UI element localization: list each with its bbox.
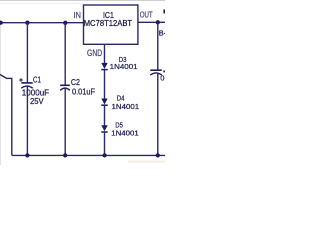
diode D3 xyxy=(101,63,107,70)
node junction C2 xyxy=(63,21,67,25)
node rail C1 xyxy=(25,153,29,157)
svg-text:C1: C1 xyxy=(33,75,41,84)
svg-text:MC78T12ABT: MC78T12ABT xyxy=(84,19,132,28)
svg-text:OUT: OUT xyxy=(140,11,153,20)
svg-text:IN: IN xyxy=(74,11,82,20)
wire D4 to D5 xyxy=(104,105,106,125)
wire input rail xyxy=(0,22,84,24)
node rail B+ xyxy=(156,153,160,157)
svg-text:GND: GND xyxy=(87,48,102,58)
wire below C4 to rail xyxy=(157,74,159,156)
svg-text:0.01uF: 0.01uF xyxy=(72,87,95,96)
top gray border xyxy=(0,0,165,1)
wire C2 bottom xyxy=(64,89,66,156)
capacitor C1 xyxy=(19,78,33,88)
node rail D5 xyxy=(102,153,106,157)
wire OUT xyxy=(138,21,165,23)
wire D3 to D4 xyxy=(104,70,106,99)
diode D4 xyxy=(101,99,107,106)
wire bottom rail xyxy=(12,154,165,156)
wire B+ vertical to capacitor xyxy=(157,22,159,70)
svg-text:1N4001: 1N4001 xyxy=(110,62,138,71)
wire C2 top xyxy=(64,23,66,85)
node input terminal xyxy=(0,21,3,25)
capacitor C2 xyxy=(60,85,70,90)
wire left elbow xyxy=(6,77,12,79)
left gray border xyxy=(0,20,2,165)
svg-text:C2: C2 xyxy=(71,78,80,87)
svg-text:0.0: 0.0 xyxy=(160,74,165,83)
wire diagonal lead-in xyxy=(0,75,7,79)
svg-text:1N4001: 1N4001 xyxy=(112,102,140,111)
capacitor C4 partial at right edge xyxy=(150,70,161,75)
wire left vertical xyxy=(11,78,13,155)
label fragment top right xyxy=(163,10,165,14)
IC U1 box xyxy=(84,5,138,44)
svg-text:25V: 25V xyxy=(30,97,44,106)
node B+ junction xyxy=(156,20,160,24)
node junction C1 xyxy=(25,21,29,25)
wire C1 bottom xyxy=(26,86,28,155)
label fragment right edge xyxy=(163,71,165,73)
wire D5 to rail xyxy=(104,132,106,155)
svg-text:B+: B+ xyxy=(159,28,165,37)
node rail C2 xyxy=(63,153,67,157)
diode D5 xyxy=(101,125,107,132)
svg-text:1N4001: 1N4001 xyxy=(111,129,138,138)
wire GND pin stub xyxy=(104,44,106,63)
wire C1 top xyxy=(26,23,28,83)
faint artifact band xyxy=(128,161,165,163)
